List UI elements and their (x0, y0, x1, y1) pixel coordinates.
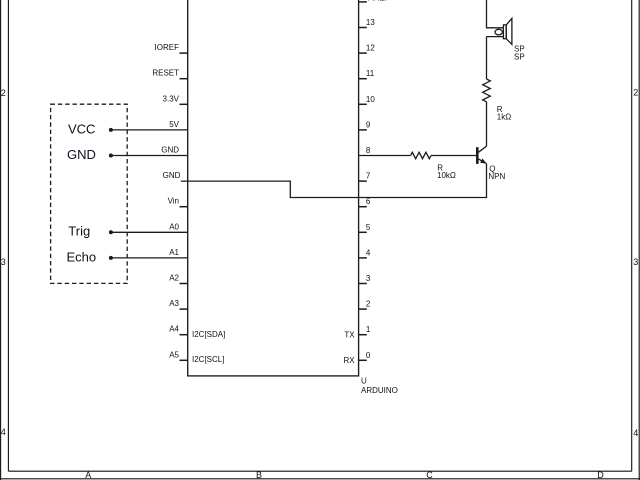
pin Vin (168, 197, 188, 207)
svg-text:A: A (85, 470, 91, 480)
pin 1 (359, 325, 371, 335)
arduino U body (188, 0, 359, 376)
wire speaker bottom lead (487, 36, 504, 38)
pin 7 (359, 172, 371, 182)
svg-text:A5: A5 (169, 350, 179, 359)
svg-text:5: 5 (366, 223, 371, 232)
pin top cut (359, 0, 390, 3)
svg-text:1kΩ: 1kΩ (497, 113, 511, 122)
pin 11 (359, 69, 375, 79)
pin 10 (359, 95, 376, 105)
node VCC junction dot (109, 128, 113, 132)
speaker SP cone (506, 18, 512, 44)
pin IOREF (155, 43, 188, 53)
svg-text:GND: GND (163, 171, 181, 180)
svg-text:Echo: Echo (67, 249, 97, 264)
pin 4 (359, 248, 371, 258)
svg-text:A2: A2 (169, 274, 179, 283)
transistor Q emitter arrow (480, 159, 486, 164)
resistor R 10k (411, 152, 431, 158)
svg-text:I2C[SCL]: I2C[SCL] (192, 355, 224, 364)
wire pin8 to R10k (359, 155, 411, 157)
resistor R 1k (483, 79, 491, 102)
svg-text:7: 7 (366, 172, 371, 181)
svg-text:GND: GND (67, 147, 96, 162)
svg-text:RESET: RESET (152, 69, 179, 78)
svg-text:4: 4 (1, 427, 6, 437)
transistor Q emitter diagonal (478, 159, 486, 164)
svg-text:9: 9 (366, 120, 371, 129)
wire R1k to speaker (486, 37, 488, 79)
svg-text:2: 2 (1, 88, 6, 98)
svg-text:AREF: AREF (368, 0, 389, 3)
svg-text:D: D (597, 470, 604, 480)
svg-text:11: 11 (366, 69, 375, 78)
svg-text:A4: A4 (169, 325, 179, 334)
svg-text:RX: RX (343, 356, 355, 365)
wire Trig to A0 (111, 231, 188, 233)
svg-text:A3: A3 (169, 299, 179, 308)
pin A2 (169, 274, 187, 284)
svg-text:12: 12 (366, 44, 375, 53)
wire Echo to A1 (111, 257, 188, 259)
svg-text:5V: 5V (169, 120, 179, 129)
pin 9 (359, 120, 371, 129)
pin 13 (359, 18, 376, 28)
speaker SP driver (503, 25, 506, 39)
node Trig junction dot (109, 230, 113, 234)
svg-text:0: 0 (366, 351, 371, 360)
svg-text:13: 13 (366, 18, 375, 27)
svg-text:ARDUINO: ARDUINO (361, 386, 398, 395)
svg-text:A0: A0 (169, 222, 179, 231)
svg-text:SP: SP (514, 52, 525, 61)
svg-text:IOREF: IOREF (155, 43, 180, 52)
pin A4 (169, 325, 187, 335)
svg-text:2: 2 (633, 87, 638, 97)
svg-text:NPN: NPN (488, 172, 505, 181)
transistor Q collector diagonal (478, 146, 486, 152)
node Echo junction dot (109, 256, 113, 260)
wire VCC to 5V (111, 129, 188, 131)
svg-text:4: 4 (633, 428, 638, 438)
svg-text:Trig: Trig (68, 224, 90, 239)
wire GND to GND (111, 155, 188, 157)
svg-text:U: U (361, 377, 367, 386)
svg-text:6: 6 (366, 197, 371, 206)
svg-text:C: C (426, 470, 433, 480)
svg-text:B: B (256, 470, 262, 480)
svg-text:10kΩ: 10kΩ (437, 171, 456, 180)
node GND junction dot (109, 154, 113, 158)
svg-text:2: 2 (366, 300, 371, 309)
wire R10k to base (431, 155, 476, 157)
pin 5 (359, 223, 371, 233)
transistor Q base bar (476, 147, 479, 164)
speaker SP coil circle (495, 29, 502, 35)
pin 0 (359, 351, 371, 361)
svg-text:I2C[SDA]: I2C[SDA] (192, 330, 225, 339)
svg-text:3: 3 (633, 257, 638, 267)
pin A3 (169, 299, 187, 309)
wire collector up (486, 102, 488, 146)
wire speaker top lead (487, 0, 504, 28)
svg-text:3: 3 (1, 257, 6, 267)
svg-text:4: 4 (366, 248, 371, 257)
svg-text:1: 1 (366, 325, 371, 334)
wire GND2 to emitter (181, 164, 487, 198)
svg-text:8: 8 (366, 146, 371, 155)
pin 6 (359, 197, 371, 207)
svg-text:10: 10 (366, 95, 375, 104)
svg-text:3: 3 (366, 274, 371, 283)
svg-text:VCC: VCC (68, 121, 95, 136)
sensor module outline (dashed) (51, 104, 128, 283)
pin 12 (359, 44, 376, 54)
svg-text:3.3V: 3.3V (163, 94, 180, 103)
svg-text:A1: A1 (169, 248, 179, 257)
pin RESET (152, 69, 187, 79)
pin 3 (359, 274, 371, 284)
svg-text:Vin: Vin (168, 197, 179, 206)
pin 2 (359, 300, 371, 310)
pin 3.3V (163, 94, 188, 104)
svg-text:GND: GND (161, 146, 179, 155)
pin A5 (169, 350, 187, 360)
svg-text:TX: TX (344, 330, 355, 339)
